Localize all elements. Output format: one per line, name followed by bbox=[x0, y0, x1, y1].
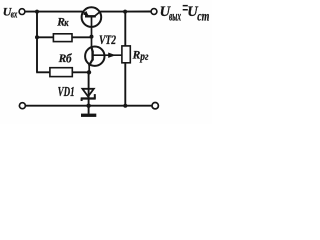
terminal input bbox=[19, 9, 25, 15]
label Uvx (input voltage) bbox=[3, 5, 18, 21]
transistor VT2 bbox=[85, 46, 122, 72]
svg-text:ст: ст bbox=[197, 9, 209, 24]
zener diode VD1 bbox=[81, 89, 96, 101]
wire VT1 base to VT2 collector bbox=[91, 16, 93, 48]
wire Rb right lead bbox=[72, 71, 89, 73]
resistor Rrg bbox=[122, 46, 130, 63]
wire Rrg bottom lead bbox=[124, 63, 126, 106]
svg-text:VD1: VD1 bbox=[58, 84, 75, 99]
svg-text:к: к bbox=[64, 17, 69, 29]
wire Rk left lead bbox=[37, 36, 53, 38]
wire top rail right (VT1 collector to output) bbox=[100, 11, 151, 13]
wire Rb bottom horizontal lead bbox=[36, 71, 50, 73]
resistor Rk bbox=[53, 34, 72, 42]
junction dot VD1 cathode / bottom rail bbox=[86, 104, 90, 108]
terminal bottom-right bbox=[152, 103, 158, 109]
resistor Rb bbox=[50, 68, 72, 77]
wire Rk right lead bbox=[72, 36, 92, 38]
svg-text:вых: вых bbox=[169, 9, 181, 24]
junction dot Rrg bottom bbox=[123, 104, 127, 108]
svg-text:R: R bbox=[132, 49, 141, 61]
svg-text:вх: вх bbox=[11, 9, 18, 20]
ground chassis bar bbox=[81, 114, 96, 117]
label Uvyh = Ust (output voltage) bbox=[160, 4, 210, 24]
wire left vertical branch bbox=[36, 12, 38, 73]
wire top rail left (input to VT1 emitter) bbox=[25, 11, 83, 13]
ground chassis stub bbox=[88, 106, 90, 114]
wire bottom rail bbox=[25, 105, 152, 107]
svg-text:рг: рг bbox=[140, 49, 149, 63]
label Rrg bbox=[132, 49, 149, 63]
junction dot top-left bbox=[35, 10, 39, 14]
transistor VT1 bbox=[82, 7, 102, 27]
junction dot Rk right / VT1 base bbox=[90, 35, 94, 39]
label Rk bbox=[56, 16, 69, 29]
junction dot Rk left bbox=[35, 35, 39, 39]
junction dot top-right bbox=[123, 10, 127, 14]
wire VD1 anode-cathode vertical bbox=[88, 72, 90, 105]
junction dot Rb right / VD1 anode bbox=[87, 70, 91, 74]
label Rb bbox=[58, 50, 72, 65]
wire Rrg top lead bbox=[124, 12, 126, 46]
svg-text:VT2: VT2 bbox=[99, 33, 116, 47]
terminal output bbox=[151, 9, 157, 15]
terminal bottom-left bbox=[19, 103, 25, 109]
svg-text:б: б bbox=[66, 50, 72, 65]
